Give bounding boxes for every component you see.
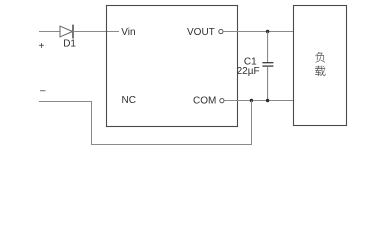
load block 负载 [294,6,347,126]
svg-text:VOUT: VOUT [187,27,215,38]
node junction VOUT/C1 [266,30,269,33]
capacitor C1 [262,32,273,101]
wire - return path [39,101,252,145]
svg-text:D1: D1 [63,38,76,49]
svg-text:COM: COM [193,95,216,106]
svg-text:22µF: 22µF [237,66,260,77]
regulator block U1 [107,6,238,127]
wire cathode to Vin [73,31,120,33]
svg-text:Vin: Vin [121,27,135,38]
pin VOUT terminal circle [219,29,223,33]
svg-text:NC: NC [122,95,136,106]
node junction COM/return [250,99,253,102]
diode D1 [60,25,73,39]
svg-text:+: + [39,41,45,52]
wire anode input [39,31,60,33]
wire VOUT to load [223,31,294,33]
svg-text:–: – [40,86,46,97]
load label char 负 [315,52,325,62]
load label char 载 [315,66,325,76]
wire COM to load [224,100,294,102]
node junction COM/C1 [266,99,269,102]
